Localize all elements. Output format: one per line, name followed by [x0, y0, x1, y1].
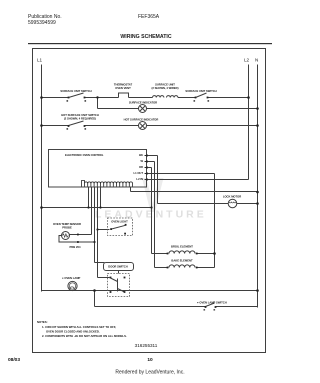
svg-text:L1 OUT: L1 OUT — [133, 171, 143, 175]
svg-text:2. COMPONENTS WITH -JE DO NO: 2. COMPONENTS WITH -JE DO NOT APPEAR ON … — [42, 334, 127, 338]
svg-text:L2: L2 — [244, 58, 250, 63]
svg-text:(2 SHOWN, 4 REQUIRED): (2 SHOWN, 4 REQUIRED) — [64, 117, 96, 121]
svg-text:OVEN VENT: OVEN VENT — [115, 86, 131, 90]
svg-text:LEADVENTURE: LEADVENTURE — [95, 209, 207, 221]
svg-text:HOT SURFACE INDICATOR: HOT SURFACE INDICATOR — [124, 118, 159, 122]
svg-text:SURFACE UNIT: SURFACE UNIT — [155, 83, 175, 87]
svg-text:Rendered by LeadVenture, Inc.: Rendered by LeadVenture, Inc. — [115, 370, 184, 376]
svg-text:BK: BK — [139, 153, 143, 157]
svg-text:WIRING SCHEMATIC: WIRING SCHEMATIC — [120, 34, 171, 40]
svg-text:OVEN LIGHT: OVEN LIGHT — [111, 220, 128, 224]
svg-text:THERMOSTAT: THERMOSTAT — [114, 83, 133, 87]
svg-text:10: 10 — [147, 357, 153, 363]
svg-text:BROIL ELEMENT: BROIL ELEMENT — [171, 245, 193, 249]
svg-text:(2 SHOWN, 4 WIRED): (2 SHOWN, 4 WIRED) — [151, 86, 178, 90]
svg-text:FEF365A: FEF365A — [138, 14, 160, 20]
svg-text:BAKE ELEMENT: BAKE ELEMENT — [171, 259, 193, 263]
svg-text:SURFACE UNIT SWITCH: SURFACE UNIT SWITCH — [185, 89, 216, 93]
svg-text:LOCK MOTOR: LOCK MOTOR — [223, 195, 241, 199]
svg-text:ELECTRONIC OVEN CONTROL: ELECTRONIC OVEN CONTROL — [65, 153, 104, 157]
svg-text:SURFACE INDICATOR: SURFACE INDICATOR — [129, 101, 157, 105]
svg-text:● OVEN LAMP: ● OVEN LAMP — [62, 276, 81, 280]
svg-text:NOTES:: NOTES: — [37, 320, 48, 324]
svg-text:5995394599: 5995394599 — [28, 20, 56, 26]
svg-text:L2 IN: L2 IN — [136, 177, 143, 181]
svg-text:● OVEN LAMP SWITCH: ● OVEN LAMP SWITCH — [197, 301, 227, 305]
svg-text:OR: OR — [139, 165, 143, 169]
svg-text:316255311: 316255311 — [135, 343, 158, 348]
svg-text:1. CIRCUIT SHOWN WITH ALL CON: 1. CIRCUIT SHOWN WITH ALL CONTROLS SET T… — [42, 325, 116, 329]
svg-text:08/03: 08/03 — [8, 357, 20, 363]
svg-text:OVEN TEMP SENSOR: OVEN TEMP SENSOR — [53, 222, 81, 226]
svg-text:W: W — [140, 159, 143, 163]
svg-text:OVEN DOOR CLOSED AND UNLOCKED.: OVEN DOOR CLOSED AND UNLOCKED. — [46, 330, 100, 334]
svg-text:DOOR SWITCH: DOOR SWITCH — [108, 265, 127, 269]
svg-text:N: N — [255, 58, 258, 63]
svg-text:HOT SURFACE UNIT SWITCH: HOT SURFACE UNIT SWITCH — [61, 113, 99, 117]
svg-text:SURFACE UNIT SWITCH: SURFACE UNIT SWITCH — [60, 89, 91, 93]
svg-text:L1: L1 — [37, 58, 43, 63]
svg-text:PRB 204: PRB 204 — [70, 245, 81, 249]
svg-text:PROBE: PROBE — [62, 226, 72, 230]
